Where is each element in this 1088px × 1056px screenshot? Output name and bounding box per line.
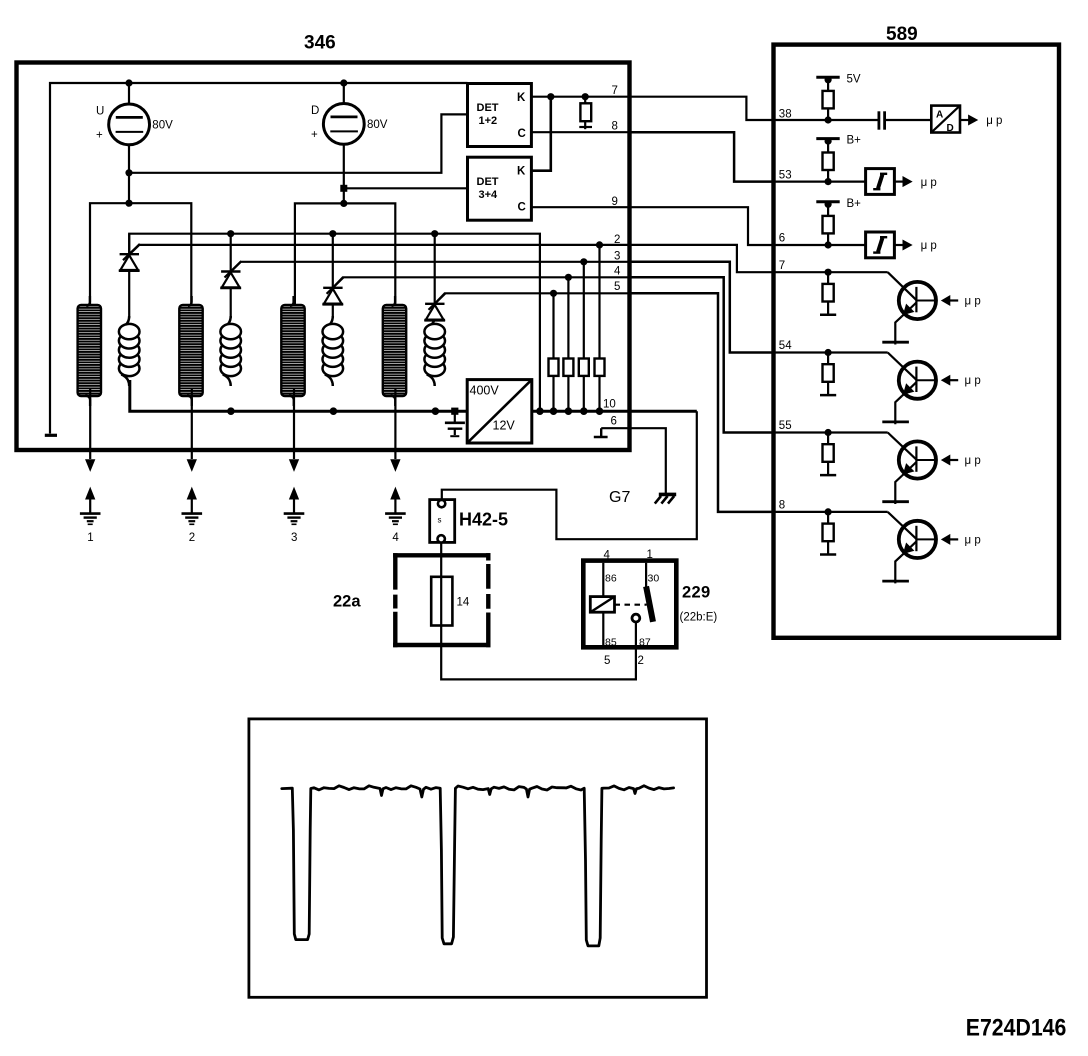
svg-text:μ p: μ p bbox=[965, 295, 981, 307]
arrow to microprocessor bbox=[960, 115, 977, 124]
arrow from microprocessor bbox=[942, 296, 958, 305]
svg-text:6: 6 bbox=[611, 416, 617, 428]
svg-text:85: 85 bbox=[605, 637, 617, 649]
ignition coil primary 1 bbox=[119, 316, 140, 386]
svg-text:3: 3 bbox=[291, 532, 297, 544]
svg-text:22a: 22a bbox=[333, 593, 361, 611]
svg-text:7: 7 bbox=[612, 85, 618, 97]
svg-text:H42-5: H42-5 bbox=[459, 510, 508, 530]
wire D split bbox=[295, 203, 395, 304]
svg-text:+: + bbox=[311, 129, 318, 141]
svg-text:C: C bbox=[518, 202, 526, 214]
node U split bbox=[125, 200, 132, 207]
wire line 54 bbox=[774, 351, 888, 353]
node drop4 bbox=[565, 274, 572, 281]
svg-text:G7: G7 bbox=[609, 489, 630, 506]
node drop5 bbox=[550, 290, 557, 297]
ignition coil secondary 1 bbox=[78, 296, 101, 406]
fuse 14 bbox=[431, 577, 452, 626]
resistor pull-down bbox=[820, 512, 836, 555]
wire thyristor rail bbox=[129, 234, 540, 412]
svg-text:229: 229 bbox=[682, 584, 710, 602]
ignition coil primary 4 bbox=[424, 316, 445, 386]
svg-text:86: 86 bbox=[605, 573, 617, 585]
ignition coil secondary 3 bbox=[281, 296, 304, 406]
spark gap output 1 bbox=[80, 388, 101, 524]
svg-text:μ p: μ p bbox=[921, 177, 937, 189]
box 22a dashed bbox=[393, 553, 490, 647]
relay blade 30 bbox=[646, 563, 653, 622]
wire through fuse bbox=[440, 577, 442, 626]
wire U stub top bbox=[128, 83, 130, 104]
svg-text:1: 1 bbox=[87, 532, 93, 544]
svg-text:8: 8 bbox=[779, 500, 785, 512]
svg-text:14: 14 bbox=[457, 597, 470, 609]
ignition coil secondary 2 bbox=[179, 296, 202, 406]
thyristor 4 bbox=[424, 234, 445, 321]
svg-text:E724D146: E724D146 bbox=[966, 1015, 1067, 1042]
detector DET3+4 bbox=[468, 157, 532, 220]
wire H42-5 to fuse bbox=[441, 543, 636, 680]
wire 4 to 55 bbox=[630, 277, 774, 432]
svg-text:+: + bbox=[96, 130, 103, 142]
ground tick 6 bbox=[594, 428, 608, 437]
arrow from microprocessor bbox=[942, 535, 958, 544]
spark gap output 4 bbox=[385, 388, 406, 524]
svg-text:9: 9 bbox=[612, 196, 618, 208]
svg-text:7: 7 bbox=[779, 260, 785, 272]
wire primary rail bbox=[130, 380, 697, 411]
ecu box 589 bbox=[774, 45, 1060, 638]
spark gap output 2 bbox=[182, 388, 203, 524]
wire U split bbox=[90, 203, 191, 304]
thyristor 2 bbox=[220, 234, 241, 318]
svg-text:38: 38 bbox=[779, 108, 792, 120]
wire line 53 bbox=[774, 181, 866, 183]
wire 8 to 53 bbox=[630, 132, 774, 181]
transistor Q bbox=[882, 512, 936, 584]
ignition coil secondary 4 bbox=[383, 296, 406, 406]
svg-text:D: D bbox=[311, 105, 319, 117]
svg-text:400V: 400V bbox=[470, 384, 500, 398]
wire 5 to 8 bbox=[630, 293, 774, 512]
converter 400V 12V bbox=[467, 380, 532, 443]
svg-text:1+2: 1+2 bbox=[479, 115, 498, 127]
svg-text:B+: B+ bbox=[847, 198, 862, 210]
wire line6 bbox=[601, 428, 666, 494]
wire to DET3+4 input bbox=[344, 187, 468, 189]
wire top bus bbox=[50, 83, 468, 434]
resistor pull-up bbox=[823, 153, 834, 171]
node rail r553 bbox=[550, 407, 558, 415]
svg-text:s: s bbox=[438, 516, 442, 525]
node D top bbox=[340, 79, 347, 86]
node rail t4 bbox=[431, 230, 438, 237]
node rail r599 bbox=[596, 407, 604, 415]
wire resistor to line bbox=[827, 170, 829, 182]
svg-text:30: 30 bbox=[648, 573, 660, 585]
svg-text:(22b:E): (22b:E) bbox=[680, 612, 718, 624]
thyristor 1 bbox=[119, 234, 140, 318]
svg-text:U: U bbox=[96, 106, 104, 118]
svg-text:C: C bbox=[518, 128, 526, 140]
wire resistor to line bbox=[827, 108, 829, 120]
svg-text:589: 589 bbox=[886, 24, 918, 45]
wire gate5 line5 bbox=[435, 293, 630, 304]
svg-text:3: 3 bbox=[614, 251, 620, 263]
svg-text:μ p: μ p bbox=[965, 534, 981, 546]
wire line 38 bbox=[774, 119, 932, 121]
relay contact 87 bbox=[632, 614, 640, 622]
node D det bbox=[340, 185, 347, 192]
svg-text:μ p: μ p bbox=[921, 240, 937, 252]
spark gap output 3 bbox=[284, 388, 305, 524]
svg-text:2: 2 bbox=[614, 234, 620, 246]
node U top bbox=[125, 79, 132, 86]
A/D converter bbox=[931, 106, 960, 134]
supply rail 5V bbox=[816, 76, 839, 91]
wire 10 to H42-5 bbox=[442, 411, 697, 539]
thyristor 3 bbox=[322, 234, 343, 318]
capacitor series bbox=[879, 111, 885, 129]
transistor Q bbox=[882, 272, 936, 344]
source D 80V bbox=[311, 104, 388, 145]
ignition coil primary 2 bbox=[220, 316, 241, 386]
node rail p2 bbox=[227, 407, 235, 415]
svg-text:4: 4 bbox=[614, 266, 621, 278]
capacitor smoothing bbox=[445, 411, 465, 436]
wire line 55 bbox=[774, 431, 888, 433]
shaper box bbox=[866, 232, 895, 258]
node rail t2 bbox=[227, 230, 234, 237]
svg-text:K: K bbox=[517, 165, 526, 177]
shaper box bbox=[866, 169, 895, 195]
relay dashed link bbox=[615, 604, 647, 606]
wire K1 to K3 bbox=[531, 97, 550, 171]
transistor Q bbox=[882, 353, 936, 425]
svg-text:B+: B+ bbox=[847, 135, 862, 147]
ignition unit box 346 bbox=[17, 63, 630, 451]
resistor pull-down bbox=[820, 433, 836, 476]
wire 2 to 7 bbox=[630, 245, 774, 272]
detector DET1+2 bbox=[468, 84, 532, 147]
node rail t3 bbox=[329, 230, 336, 237]
svg-text:54: 54 bbox=[779, 340, 792, 352]
svg-text:D: D bbox=[947, 123, 954, 134]
svg-text:346: 346 bbox=[304, 33, 336, 54]
arrow from microprocessor bbox=[942, 455, 958, 464]
svg-text:12V: 12V bbox=[493, 419, 516, 433]
svg-text:6: 6 bbox=[779, 233, 785, 245]
node rail r568 bbox=[565, 407, 573, 415]
resistor pull-up bbox=[823, 216, 834, 234]
svg-text:DET: DET bbox=[477, 102, 499, 114]
svg-text:2: 2 bbox=[638, 655, 644, 667]
oscilloscope frame bbox=[249, 719, 707, 997]
svg-text:A: A bbox=[936, 110, 943, 121]
svg-text:53: 53 bbox=[779, 170, 792, 182]
waveform trace bbox=[282, 786, 674, 946]
wire gate3 line3 bbox=[231, 262, 630, 272]
relay box 229 bbox=[583, 561, 676, 648]
wire K1 line7 bbox=[531, 96, 630, 98]
wire C1 line8 bbox=[531, 131, 630, 133]
resistor drop2 bbox=[595, 245, 605, 411]
wire U bottom bbox=[128, 145, 130, 204]
wire D stub top bbox=[343, 83, 345, 103]
ignition coil primary 3 bbox=[323, 316, 344, 386]
resistor pull-up bbox=[823, 91, 834, 109]
node D split bbox=[340, 200, 347, 207]
node rail cap bbox=[451, 408, 458, 415]
ground G7 bbox=[655, 494, 676, 503]
node rail p3 bbox=[330, 407, 338, 415]
svg-text:8: 8 bbox=[612, 121, 618, 133]
svg-text:2: 2 bbox=[189, 532, 195, 544]
node rail r584 bbox=[580, 407, 588, 415]
node U mid bbox=[125, 169, 132, 176]
arrow from microprocessor bbox=[942, 376, 958, 385]
wire 3 to 54 bbox=[630, 262, 774, 353]
source U 80V bbox=[96, 104, 173, 145]
svg-text:K: K bbox=[517, 92, 526, 104]
svg-text:5: 5 bbox=[604, 655, 610, 667]
node resistor top bbox=[582, 93, 589, 100]
wire 9 to 6 bbox=[630, 207, 774, 245]
node rail p4 bbox=[432, 407, 440, 415]
svg-text:10: 10 bbox=[603, 399, 616, 411]
node 53 bbox=[825, 178, 832, 185]
resistor drop3 bbox=[579, 262, 589, 411]
resistor pulldown 7 bbox=[579, 97, 592, 130]
node drop3 bbox=[580, 258, 587, 265]
svg-text:5: 5 bbox=[614, 281, 620, 293]
svg-text:4: 4 bbox=[604, 550, 611, 562]
resistor pull-down bbox=[820, 353, 836, 396]
transistor Q bbox=[882, 433, 936, 505]
wire gate4 line4 bbox=[333, 277, 630, 288]
resistor drop5 bbox=[549, 293, 559, 411]
wire to DET1+2 input bbox=[129, 114, 468, 172]
node 6 bbox=[825, 241, 832, 248]
node rail r540 bbox=[536, 407, 544, 415]
svg-text:DET: DET bbox=[477, 176, 499, 188]
wire line 6 bbox=[774, 244, 866, 246]
resistor pull-down bbox=[820, 272, 836, 315]
resistor drop4 bbox=[563, 277, 573, 411]
wire D bottom bbox=[343, 144, 345, 203]
svg-text:μ p: μ p bbox=[965, 375, 981, 387]
svg-text:μ p: μ p bbox=[986, 115, 1002, 127]
svg-text:5V: 5V bbox=[847, 73, 861, 85]
node 38 bbox=[825, 116, 832, 123]
svg-text:3+4: 3+4 bbox=[479, 189, 499, 201]
arrow to microprocessor bbox=[894, 240, 911, 249]
node K junction bbox=[547, 93, 554, 100]
wire line 7 bbox=[774, 271, 888, 273]
node 54 bbox=[825, 349, 832, 356]
svg-text:4: 4 bbox=[392, 532, 399, 544]
wire C3 line9 bbox=[531, 206, 630, 208]
svg-text:87: 87 bbox=[639, 637, 651, 649]
wire line 8 bbox=[774, 511, 888, 513]
node 8 bbox=[825, 508, 832, 515]
node 7 bbox=[825, 269, 832, 276]
supply rail B+ bbox=[816, 138, 839, 153]
svg-text:80V: 80V bbox=[367, 119, 388, 131]
node drop2 bbox=[596, 241, 603, 248]
wire 7 to 38 bbox=[630, 97, 774, 120]
svg-text:80V: 80V bbox=[152, 119, 173, 131]
connector H42-5 bbox=[430, 500, 455, 543]
relay coil bbox=[590, 563, 614, 645]
supply rail B+ bbox=[816, 201, 839, 216]
svg-text:55: 55 bbox=[779, 420, 792, 432]
ground chassis tick left bbox=[45, 434, 57, 437]
arrow to microprocessor bbox=[894, 177, 911, 186]
wire gate2 line2 bbox=[129, 245, 630, 255]
svg-text:1: 1 bbox=[647, 549, 653, 561]
svg-text:μ p: μ p bbox=[965, 455, 981, 467]
wire resistor to line bbox=[827, 233, 829, 245]
node 55 bbox=[825, 429, 832, 436]
